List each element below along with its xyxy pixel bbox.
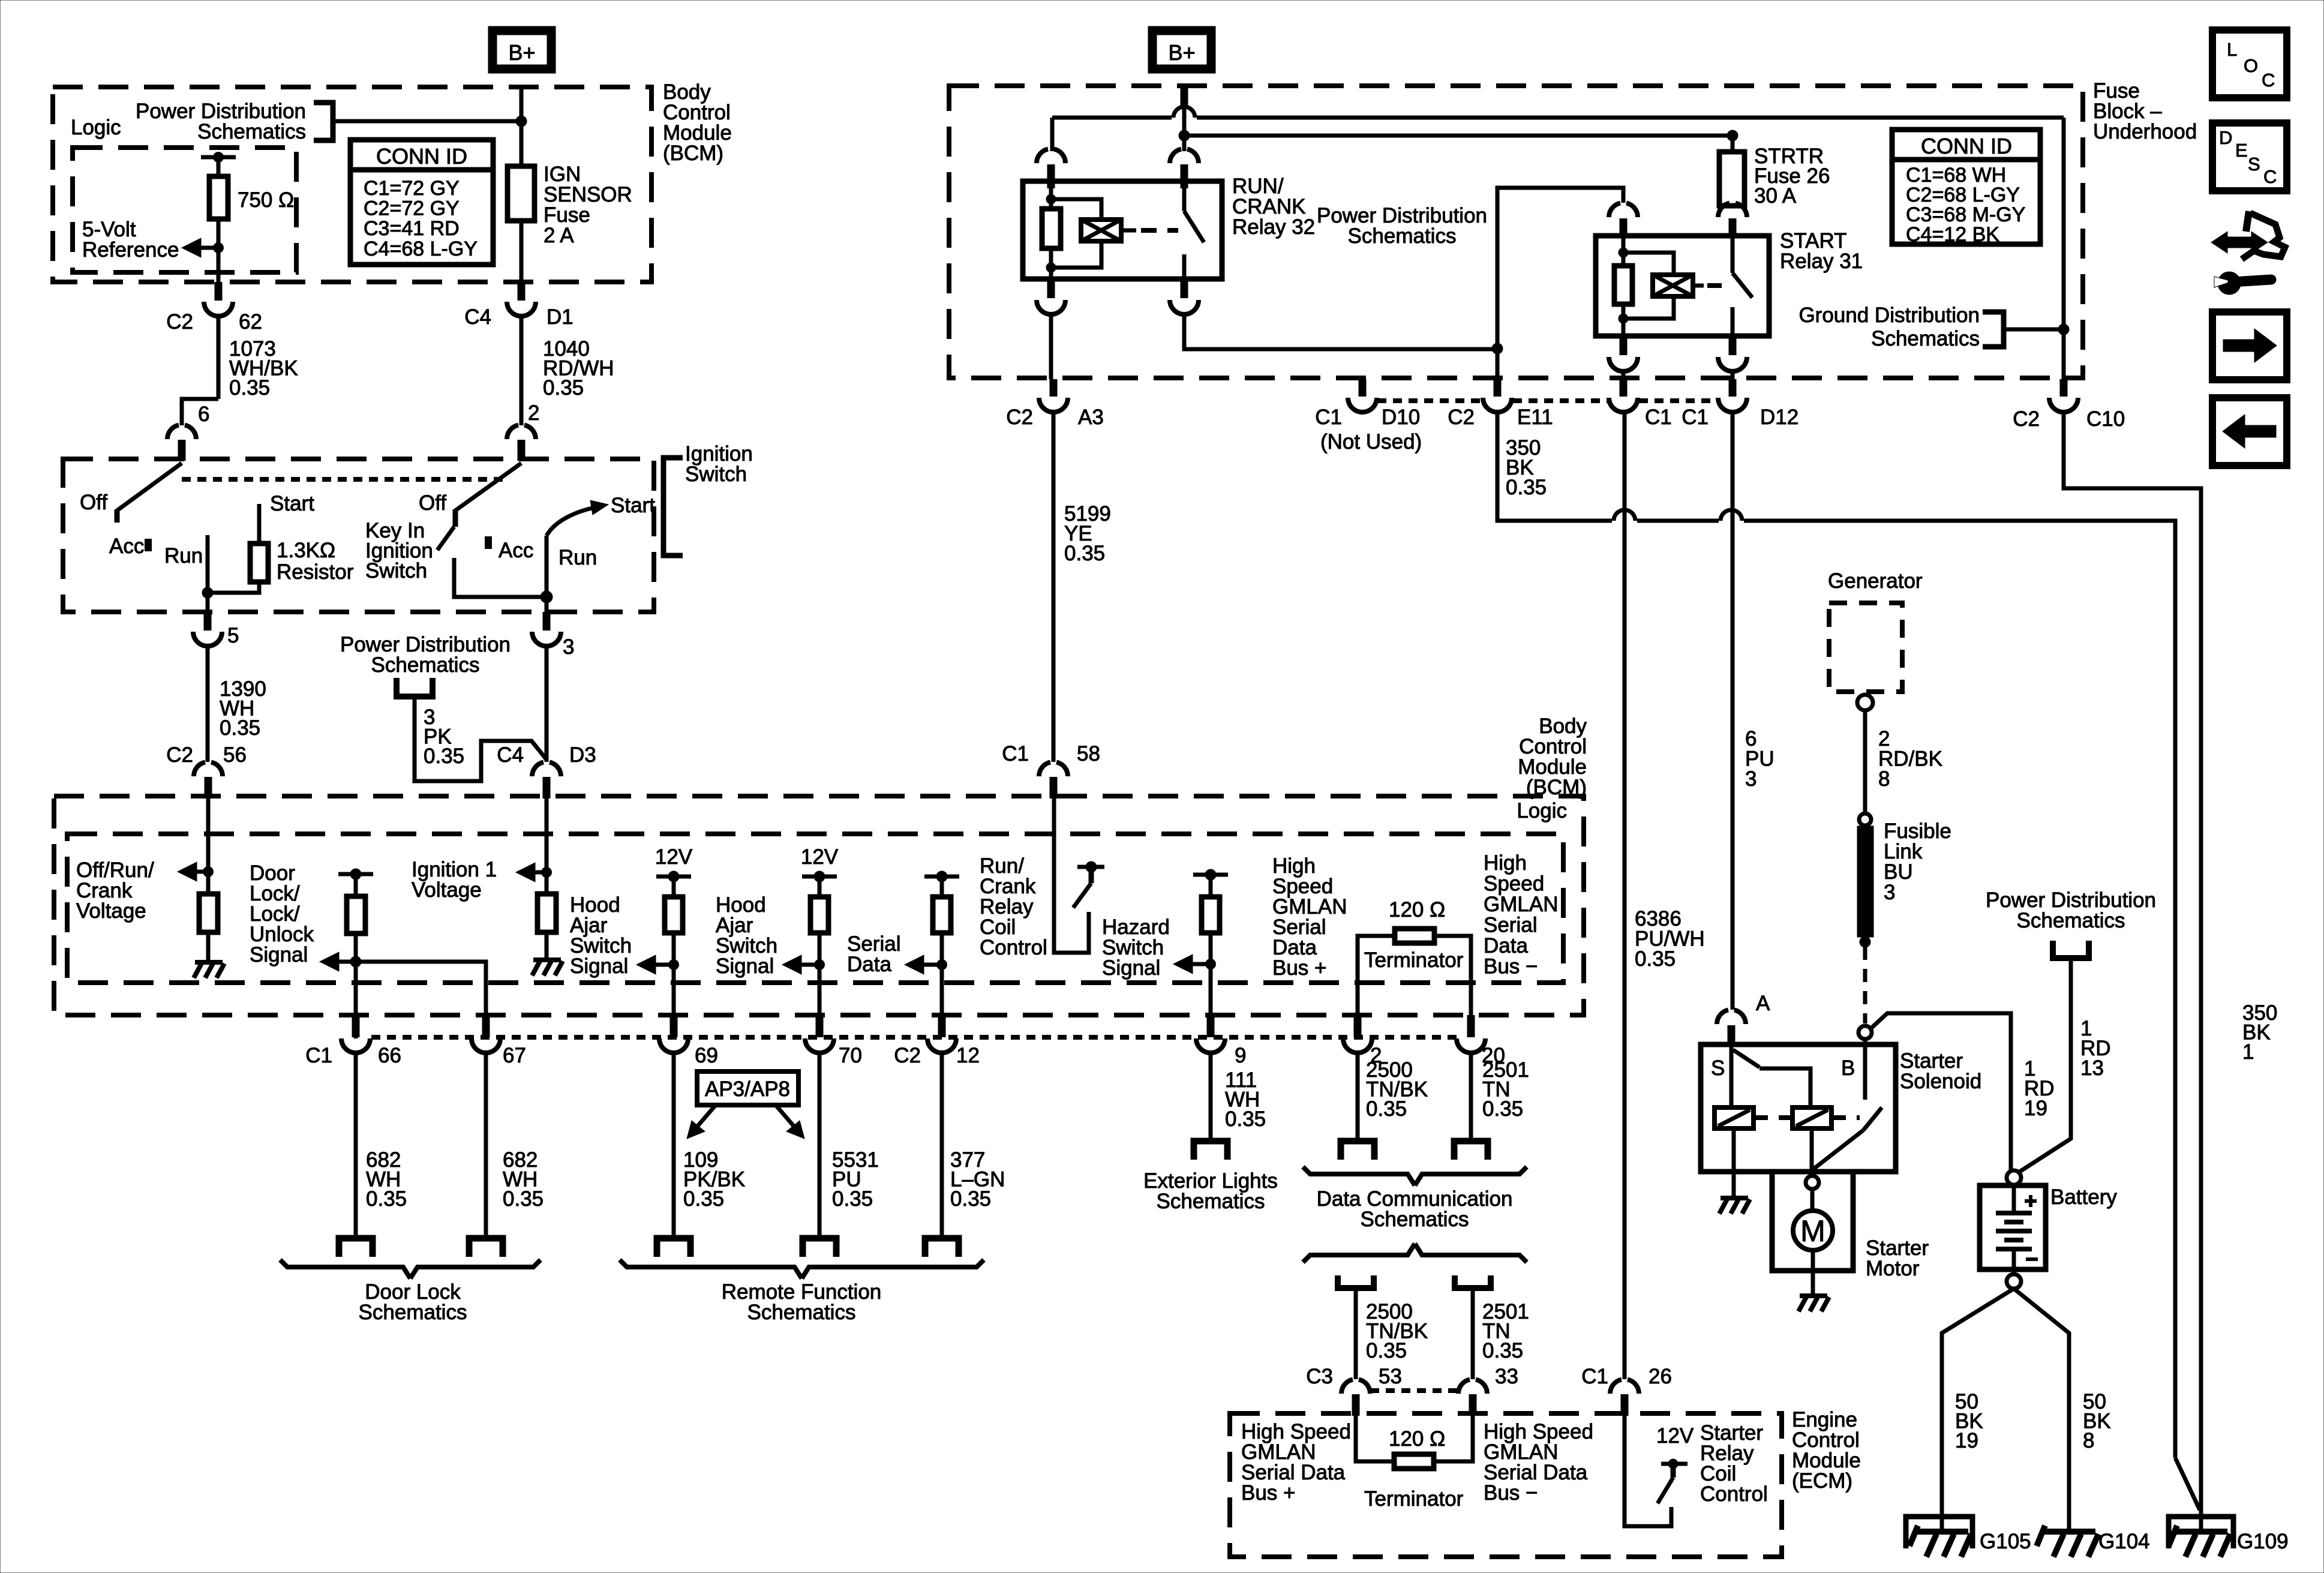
relay 32 coil resistor [1049, 188, 1053, 210]
BCM top dashed box [53, 87, 651, 282]
wire 12 down [940, 1053, 944, 1238]
starter motor enclosure [1772, 1172, 1853, 1271]
svg-text:1: 1 [2242, 1040, 2254, 1064]
serial data wire [940, 876, 944, 898]
hook wire 12 [925, 1238, 959, 1257]
svg-text:CONN ID: CONN ID [376, 144, 467, 169]
svg-text:C1: C1 [1581, 1365, 1608, 1388]
connector pin (BCM2 exit) [1207, 1015, 1215, 1037]
svg-text:26: 26 [1649, 1365, 1672, 1388]
connector relay 32 switch bottom pin [1181, 279, 1188, 298]
ground G105 [1915, 1529, 1968, 1535]
svg-text:C3=41 RD: C3=41 RD [364, 217, 460, 240]
wire 2 RD/BK generator to fusible link [1863, 710, 1867, 814]
connector pin (BCM2 exit) [670, 1015, 678, 1037]
chain ignition 1 voltage wire [545, 798, 549, 895]
pole 1 Acc contact [145, 539, 152, 551]
svg-text:5: 5 [227, 624, 239, 647]
svg-text:Motor: Motor [1866, 1257, 1920, 1280]
svg-text:Signal: Signal [716, 954, 774, 978]
resistor 1.3K [250, 544, 268, 582]
svg-text:GMLAN: GMLAN [1484, 893, 1558, 916]
pole 2 Off contact [453, 509, 458, 527]
wire 2 down [1356, 1053, 1360, 1141]
connector 5 (ignition exit) [204, 612, 212, 631]
connector pin (BCM2 exit) [352, 1015, 360, 1037]
svg-text:D3: D3 [569, 743, 596, 767]
wire fuse to C4/D1 [520, 221, 524, 282]
battery plus sign [2025, 1199, 2037, 1203]
relay 32 coil loop and core [1051, 199, 1101, 220]
solenoid mechanical dashes [1753, 1115, 1792, 1120]
relay 32 switch blade [1182, 188, 1187, 211]
svg-text:C1: C1 [1645, 406, 1672, 429]
connector relay 32 switch top pin [1170, 149, 1181, 164]
svg-text:Battery: Battery [2050, 1185, 2117, 1209]
wire B+ to IGN SENSOR fuse [520, 86, 524, 166]
wire 5199 YE A3 to C1/58 [1052, 412, 1056, 762]
svg-text:CONN ID: CONN ID [1921, 134, 2012, 158]
wire 1073 WH/BK [217, 316, 221, 399]
svg-text:6: 6 [198, 403, 209, 426]
svg-text:8: 8 [1878, 767, 1890, 791]
wire hood ajar 2 to exit 70 [818, 933, 822, 1015]
svg-text:69: 69 [695, 1044, 718, 1067]
svg-text:D1: D1 [547, 305, 574, 329]
door lock arrow [339, 960, 356, 964]
svg-text:Schematics: Schematics [359, 1301, 467, 1324]
svg-text:C2: C2 [1448, 406, 1475, 429]
connector relay 32 coil bottom pin [1047, 279, 1055, 298]
svg-text:AP3/AP8: AP3/AP8 [705, 1077, 790, 1101]
svg-text:Acc: Acc [499, 539, 533, 562]
B+ stub into fuse block [1181, 87, 1188, 106]
connector pin (BCM2 exit) [1467, 1015, 1475, 1037]
hook wire 20 [1454, 1141, 1488, 1160]
svg-text:D: D [2219, 127, 2232, 148]
svg-text:Relay 32: Relay 32 [1232, 215, 1315, 239]
starter relay coil control wire (ECM) [1625, 1416, 1671, 1526]
hood ajar 1 wire [672, 876, 676, 898]
connector pin (BCM2 exit) [816, 1015, 824, 1037]
svg-text:Voltage: Voltage [76, 899, 146, 923]
wire fuse 26 to relay 31 switch [1731, 204, 1735, 206]
hook wire 70 [803, 1238, 836, 1257]
svg-text:Signal: Signal [570, 954, 628, 978]
connector C2 pin E11 (fuse block exit) [1494, 379, 1502, 397]
battery ground fork [1942, 1289, 2014, 1532]
svg-text:O: O [2244, 55, 2258, 76]
svg-text:0.35: 0.35 [683, 1187, 724, 1211]
svg-text:Speed: Speed [1484, 872, 1544, 896]
battery box [1980, 1185, 2046, 1269]
svg-text:Underhood: Underhood [2093, 120, 2197, 143]
svg-text:(Not Used): (Not Used) [1320, 430, 1422, 454]
run/crank relay coil control wire [1054, 798, 1089, 953]
svg-text:750 Ω: 750 Ω [238, 188, 294, 212]
connector relay 31 coil bottom pin [1620, 336, 1628, 355]
wire relay 31 switch to D12 exit [1731, 371, 1735, 379]
starter motor circle [1793, 1211, 1833, 1250]
svg-text:56: 56 [223, 743, 247, 767]
svg-text:12: 12 [956, 1044, 980, 1067]
svg-text:Resistor: Resistor [277, 560, 354, 584]
Ignition Switch label bracket [663, 458, 683, 556]
solenoid hold-in coil [1715, 1107, 1753, 1128]
svg-text:30 A: 30 A [1754, 184, 1797, 208]
svg-text:120 Ω: 120 Ω [1389, 898, 1445, 921]
relay 31 coil loop and core [1623, 253, 1674, 275]
svg-text:0.35: 0.35 [1482, 1339, 1523, 1362]
svg-text:3: 3 [1884, 881, 1895, 904]
svg-text:9: 9 [1235, 1044, 1246, 1067]
connector relay 32 coil top pin [1037, 149, 1048, 164]
E11 node loop to relay 31 coil [1497, 188, 1623, 349]
svg-text:C1: C1 [305, 1044, 332, 1067]
svg-text:0.35: 0.35 [1064, 542, 1105, 565]
connector C4 pin D1 (BCM exit) [518, 282, 526, 301]
wire B+ down to relay 32 switch [1182, 106, 1187, 151]
svg-text:S: S [1711, 1056, 1725, 1080]
Remote Function Schematics brace [620, 1260, 802, 1278]
key-in switch blade [437, 527, 454, 550]
solenoid main switch blade [1863, 1107, 1882, 1130]
svg-text:Schematics: Schematics [1871, 327, 1980, 350]
pole 2 Run contact wire [545, 536, 549, 597]
connector C1 pin D12 (fuse block exit) [1729, 379, 1737, 397]
svg-text:120 Ω: 120 Ω [1389, 1427, 1445, 1451]
svg-text:C1: C1 [1682, 406, 1709, 429]
pole 2 Start blade curve with arrowhead [547, 507, 597, 536]
BCM2 connector row dotted line [371, 1035, 1457, 1040]
fuse block connector row dotted line [1377, 398, 1482, 403]
fuse STRTR 26 30A [1719, 152, 1744, 206]
wire hood ajar 1 to exit 69 [672, 933, 676, 1015]
svg-text:Off: Off [80, 491, 107, 514]
hook wire 67 [469, 1238, 503, 1257]
connector 2 (ignition switch entry) [507, 425, 518, 440]
resistor hazard switch signal [1202, 897, 1220, 933]
svg-text:Data: Data [847, 953, 891, 976]
wire hazard signal to exit 9 [1209, 933, 1213, 1015]
junction dot hood ajar 2 [815, 960, 825, 970]
terminator 120 ohm (BCM) [1395, 929, 1434, 943]
svg-text:Terminator: Terminator [1364, 1487, 1464, 1511]
svg-text:0.35: 0.35 [1366, 1097, 1407, 1121]
bus+ wire (BCM) [1358, 936, 1395, 1015]
hood ajar 1 arrow [656, 963, 674, 967]
wire 20 down [1469, 1053, 1473, 1141]
wire 1 RD 19 to battery [1872, 1013, 2011, 1170]
pole 2 Acc contact [485, 536, 492, 549]
bus- wire (ECM) [1434, 1416, 1473, 1461]
resistor serial data [933, 897, 951, 933]
resistor ignition 1 voltage [538, 894, 556, 932]
svg-text:Serial: Serial [1484, 914, 1537, 937]
svg-text:Control: Control [980, 936, 1047, 959]
wire 66 down [354, 1053, 358, 1238]
ignition 1 voltage arrow [535, 870, 547, 875]
svg-text:0.35: 0.35 [503, 1187, 544, 1211]
ground (off/run/crank) [195, 960, 223, 965]
junction dot C10 wire [2058, 324, 2069, 335]
svg-text:A3: A3 [1078, 406, 1104, 429]
connector pin (BCM2 exit) [938, 1015, 946, 1037]
hazard switch blade [1089, 867, 1094, 883]
svg-text:C4=12 BK: C4=12 BK [1906, 223, 1999, 246]
fusible link dashed wire [1863, 947, 1867, 1023]
svg-text:C: C [2262, 70, 2275, 91]
svg-text:0.35: 0.35 [1225, 1107, 1266, 1131]
svg-text:Schematics: Schematics [1348, 224, 1457, 248]
svg-text:High: High [1484, 851, 1527, 875]
wire motor to ground [1811, 1250, 1815, 1296]
icon arrow left box [2212, 398, 2287, 466]
node dot 5-volt reference [214, 243, 224, 253]
connector C1 pin 26 (ECM entry) [1610, 1380, 1622, 1394]
starter solenoid B ring [1858, 1026, 1872, 1039]
fusible link BU 3 [1857, 826, 1873, 937]
connector C2 pin A3 (fuse block exit) [1050, 379, 1058, 397]
wire 3 PK [415, 697, 547, 781]
terminator 120 ohm (ECM) [1394, 1454, 1434, 1469]
connector 6 (ignition switch entry) [167, 425, 179, 440]
wire resistor to ground [206, 932, 211, 962]
svg-text:Start: Start [270, 492, 314, 515]
svg-text:53: 53 [1379, 1365, 1402, 1388]
wire 6 PU relay31 switch to starter solenoid A [1731, 412, 1735, 1010]
starter solenoid box [1701, 1044, 1896, 1172]
junction dot door lock [350, 956, 361, 967]
svg-text:D12: D12 [1760, 406, 1798, 429]
wire E11 ground merge to G109 [2175, 1458, 2200, 1510]
svg-text:Logic: Logic [1517, 799, 1567, 822]
solenoid S switch blade [1733, 1050, 1759, 1067]
connector relay 31 coil top pin [1609, 203, 1620, 218]
mechanical link dotted line [182, 477, 507, 482]
BCM2 Logic inner dashed box [67, 834, 1563, 983]
wire 1040 RD/WH [520, 316, 524, 425]
wire 1 RD 13 [2017, 958, 2071, 1173]
icon LOC box [2212, 30, 2287, 98]
svg-text:0.35: 0.35 [543, 376, 584, 400]
svg-text:Bus +: Bus + [1272, 956, 1326, 980]
svg-text:G105: G105 [1980, 1530, 2031, 1553]
junction dot off/run/crank [203, 867, 214, 877]
wire hold-in coil to ground [1732, 1128, 1736, 1198]
svg-text:0.35: 0.35 [220, 716, 260, 740]
svg-text:0.35: 0.35 [424, 745, 464, 768]
svg-text:Schematics: Schematics [197, 120, 306, 143]
wire door lock resistor to dot [354, 933, 358, 1038]
Door Lock Schematics brace [280, 1260, 410, 1278]
relay 31 START box [1596, 236, 1769, 336]
B+ terminal (BCM feed) [493, 31, 551, 69]
svg-text:2 A: 2 A [544, 224, 574, 247]
hook wire 66 [339, 1238, 373, 1257]
svg-text:C2: C2 [894, 1044, 921, 1067]
svg-text:0.35: 0.35 [1635, 947, 1676, 971]
battery - ring [2007, 1274, 2021, 1289]
svg-text:3: 3 [563, 635, 574, 659]
svg-text:Run: Run [164, 544, 203, 568]
connector C3 pin 53 (ECM entry) [1341, 1380, 1353, 1394]
connector pin (BCM2 exit) [482, 1015, 490, 1037]
motor node ring [1806, 1176, 1819, 1189]
pole 1 Run contact wire [206, 535, 210, 593]
svg-text:0.35: 0.35 [1482, 1097, 1523, 1121]
icon exchange/wrench [2211, 232, 2268, 253]
svg-text:Schematics: Schematics [2017, 909, 2125, 932]
wire serial data to exit 12 [940, 933, 944, 1015]
connector C4 pin D3 (BCM2 entry) [532, 763, 544, 777]
svg-text:C4: C4 [497, 743, 524, 767]
connector C2 pin 56 (BCM2 entry) [194, 763, 205, 777]
svg-text:Logic: Logic [71, 116, 121, 139]
svg-text:66: 66 [378, 1044, 401, 1067]
svg-text:13: 13 [2080, 1056, 2104, 1080]
relay 31 mechanical link dashes [1707, 283, 1731, 288]
svg-text:Ground Distribution: Ground Distribution [1798, 304, 1980, 327]
svg-text:19: 19 [1955, 1429, 1978, 1452]
Data Communication Schematics brace [1303, 1167, 1415, 1185]
svg-text:Data: Data [1484, 934, 1528, 957]
connector C1 pin D10 not used [1359, 379, 1367, 397]
svg-text:(BCM): (BCM) [1526, 776, 1587, 799]
svg-text:L: L [2227, 39, 2237, 60]
wire pull-in coil to motor node [1810, 1128, 1814, 1173]
svg-text:G109: G109 [2237, 1530, 2289, 1553]
svg-text:70: 70 [839, 1044, 862, 1067]
connector C1 pin 58 (BCM2 entry) [1039, 763, 1050, 777]
svg-text:62: 62 [239, 310, 262, 334]
ground G109 staple [2169, 1517, 2233, 1548]
junction dot pole 2 [541, 591, 553, 603]
Data Communication lower brace [1303, 1244, 1415, 1262]
hood ajar 2 wire [818, 876, 822, 898]
Fuse Block - Underhood dashed box [949, 86, 2083, 378]
svg-text:12V: 12V [801, 845, 839, 869]
connector A (starter solenoid entry) [1717, 1010, 1728, 1025]
svg-text:D10: D10 [1382, 406, 1420, 429]
svg-text:C2: C2 [166, 310, 193, 334]
svg-text:3: 3 [1745, 767, 1756, 791]
solenoid B wire [1863, 1039, 1867, 1100]
ignition switch pole 2 blade [455, 463, 521, 511]
connector C2 pin 62 (BCM exit) [215, 282, 223, 301]
svg-text:8: 8 [2083, 1429, 2094, 1452]
svg-text:Schematics: Schematics [371, 653, 480, 677]
resistor door lock [347, 896, 365, 933]
bracket wire 33 [1455, 1275, 1491, 1288]
ground G104 [2043, 1529, 2095, 1535]
svg-text:C3: C3 [1306, 1365, 1333, 1388]
svg-text:C: C [2263, 166, 2277, 187]
starter relay coil control switch bar [1661, 1462, 1688, 1466]
hazard signal arrow [1193, 962, 1211, 966]
wire relay32 coil feed [1050, 118, 1055, 151]
svg-text:Signal: Signal [250, 943, 308, 966]
junction dot B+ bus 2 [1179, 130, 1190, 141]
wire to starter motor [1810, 1189, 1815, 1211]
svg-text:0.35: 0.35 [1366, 1339, 1407, 1362]
svg-text:Solenoid: Solenoid [1900, 1070, 1981, 1093]
wire 750 ohm to 5V ref node [217, 218, 221, 282]
junction dot hood ajar 1 [669, 960, 679, 970]
svg-text:0.35: 0.35 [1506, 476, 1547, 499]
generator terminal ring [1857, 695, 1873, 710]
svg-text:Generator: Generator [1828, 569, 1923, 593]
wire 69 down [672, 1053, 676, 1238]
bus+ wire (ECM) [1356, 1416, 1394, 1461]
pole 1 Start contact wire [257, 504, 262, 545]
svg-text:1.3KΩ: 1.3KΩ [277, 539, 335, 562]
wire 70 down [818, 1053, 822, 1238]
AP3/AP8 arrow right [776, 1105, 794, 1127]
svg-text:S: S [2248, 154, 2260, 175]
svg-text:Relay 31: Relay 31 [1780, 250, 1863, 273]
connector C1 (relay31 coil exit) [1620, 379, 1628, 397]
svg-text:58: 58 [1077, 742, 1100, 766]
relay 31 coil resistor [1622, 236, 1626, 267]
junction dot ignition 1 voltage [542, 867, 552, 878]
svg-text:12V: 12V [1656, 1424, 1694, 1448]
connector pin (BCM2 exit) [1354, 1015, 1362, 1037]
relay 31 switch blade [1731, 236, 1735, 273]
junction dot serial data [937, 960, 947, 970]
svg-text:12V: 12V [655, 845, 693, 869]
STRTR fuse 26 wire [1731, 136, 1735, 152]
svg-text:Switch: Switch [685, 463, 747, 486]
icon arrow right box [2212, 312, 2287, 380]
Generator dashed box [1829, 603, 1902, 692]
ground G109 [2175, 1529, 2227, 1535]
svg-text:C2=72 GY: C2=72 GY [364, 197, 460, 220]
resistor 750 ohm top bar [201, 155, 236, 160]
connector relay 31 switch bottom pin [1729, 336, 1737, 355]
svg-text:E11: E11 [1517, 406, 1553, 429]
svg-text:Control: Control [1700, 1482, 1768, 1506]
bus- wire (BCM) [1434, 936, 1471, 1015]
hook wire 9 (exterior lights) [1194, 1141, 1227, 1160]
svg-text:C4: C4 [464, 305, 491, 329]
connector C2 pin C10 (fuse block exit) [2060, 379, 2068, 397]
hook wire 69 [657, 1238, 690, 1257]
svg-text:33: 33 [1495, 1365, 1518, 1388]
wire E11 350BK ground run with hops [1497, 412, 1612, 521]
wire 33 down [1471, 1288, 1475, 1379]
wire E11 exit [1496, 349, 1500, 379]
svg-text:0.35: 0.35 [950, 1187, 991, 1211]
serial data arrow [924, 963, 942, 967]
ECM dashed box [1230, 1413, 1782, 1557]
Power Distribution bracket (battery) [2053, 941, 2089, 958]
svg-text:(BCM): (BCM) [663, 142, 723, 165]
svg-text:Bus +: Bus + [1241, 1481, 1295, 1505]
junction dot hazard signal [1206, 959, 1216, 969]
wire pole2 to connector 3 [545, 597, 549, 612]
ground (starter solenoid) [1721, 1196, 1748, 1200]
svg-text:Acc: Acc [109, 535, 144, 558]
ground (starter motor) [1800, 1293, 1827, 1298]
connector 3 (ignition exit) [543, 612, 551, 631]
svg-text:Schematics: Schematics [1157, 1190, 1265, 1213]
svg-text:C1=72 GY: C1=72 GY [364, 177, 460, 200]
connector pin 33 (ECM entry) [1458, 1380, 1470, 1394]
ECM connector row dotted line [1370, 1388, 1458, 1393]
ground (ignition 1 voltage) [533, 957, 561, 962]
resistor hood ajar 1 [665, 897, 683, 933]
